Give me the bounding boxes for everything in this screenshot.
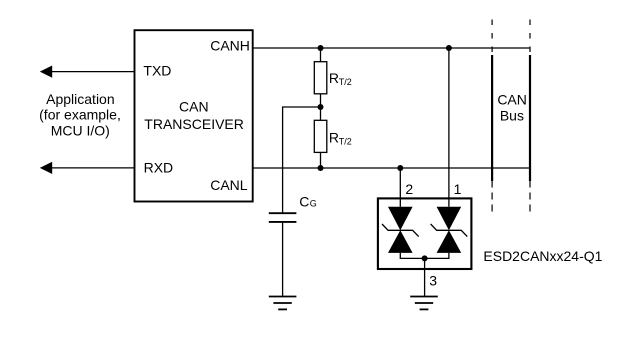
wire CANH to R1 — [320, 48, 322, 62]
wire R1 to midpoint node — [320, 94, 322, 107]
wire midpoint to CG — [283, 107, 321, 213]
wire pin1 — [448, 48, 450, 207]
svg-text:R: R — [329, 129, 339, 145]
node CANL to ESD pin2 — [397, 165, 403, 171]
svg-text:T/2: T/2 — [339, 77, 352, 87]
TVS diode D1 (right, pin 1) — [431, 207, 468, 253]
arrow TXD to application — [40, 66, 52, 78]
CAN bus line right (solid) — [529, 55, 531, 181]
wire CANL net — [253, 167, 530, 169]
wire diode commons to pin3 — [400, 253, 449, 259]
ground below CG — [269, 297, 297, 310]
resistor RT/2 upper — [314, 62, 327, 94]
svg-text:MCU I/O): MCU I/O) — [51, 122, 110, 138]
svg-text:2: 2 — [405, 181, 413, 197]
wire CANH net — [253, 47, 530, 49]
svg-text:Application: Application — [46, 91, 115, 107]
svg-text:TRANSCEIVER: TRANSCEIVER — [144, 116, 244, 132]
svg-text:CAN: CAN — [497, 92, 527, 108]
svg-text:T/2: T/2 — [339, 137, 352, 147]
CAN transceiver box U1 — [135, 30, 253, 201]
TVS diode D2 (left, pin 2) — [382, 207, 419, 253]
svg-text:3: 3 — [429, 272, 437, 288]
node pin3 junction — [422, 255, 428, 261]
wire CG to ground — [282, 223, 284, 297]
label Application (for example, MCU I/O) — [39, 91, 121, 138]
wire R2 to CANL — [320, 152, 322, 168]
ground below ESD pin3 — [410, 297, 438, 310]
capacitor CG — [269, 213, 297, 222]
CAN bus left dashed continuation bottom — [491, 181, 493, 212]
svg-text:1: 1 — [454, 181, 462, 197]
wire pin2 — [399, 168, 401, 207]
svg-text:(for example,: (for example, — [39, 107, 121, 123]
svg-text:TXD: TXD — [143, 63, 171, 79]
arrow RXD to application — [40, 162, 52, 174]
svg-text:CANH: CANH — [210, 37, 250, 53]
node CANH to ESD pin1 — [446, 45, 452, 51]
wire RXD — [52, 167, 135, 169]
svg-text:ESD2CANxx24-Q1: ESD2CANxx24-Q1 — [483, 248, 602, 264]
ESD protection diode box U2 — [378, 198, 472, 269]
svg-text:Bus: Bus — [500, 108, 524, 124]
svg-text:CANL: CANL — [210, 177, 248, 193]
svg-text:CAN: CAN — [179, 99, 209, 115]
node R2 bottom on CANL — [318, 165, 324, 171]
CAN bus right dashed continuation bottom — [529, 181, 531, 212]
CAN bus line left (solid) — [491, 55, 493, 181]
CAN bus left dashed continuation top — [491, 20, 493, 53]
svg-text:RXD: RXD — [144, 160, 174, 176]
resistor RT/2 lower — [314, 120, 327, 152]
wire pin3 to ground — [424, 258, 426, 296]
svg-text:C: C — [299, 194, 309, 210]
node split-termination midpoint — [318, 104, 324, 110]
svg-text:G: G — [310, 199, 317, 209]
node R1 top on CANH — [318, 45, 324, 51]
svg-text:R: R — [329, 70, 339, 86]
wire midpoint to R2 — [320, 107, 322, 120]
CAN bus right dashed continuation top — [529, 20, 531, 53]
wire TXD — [52, 71, 135, 73]
